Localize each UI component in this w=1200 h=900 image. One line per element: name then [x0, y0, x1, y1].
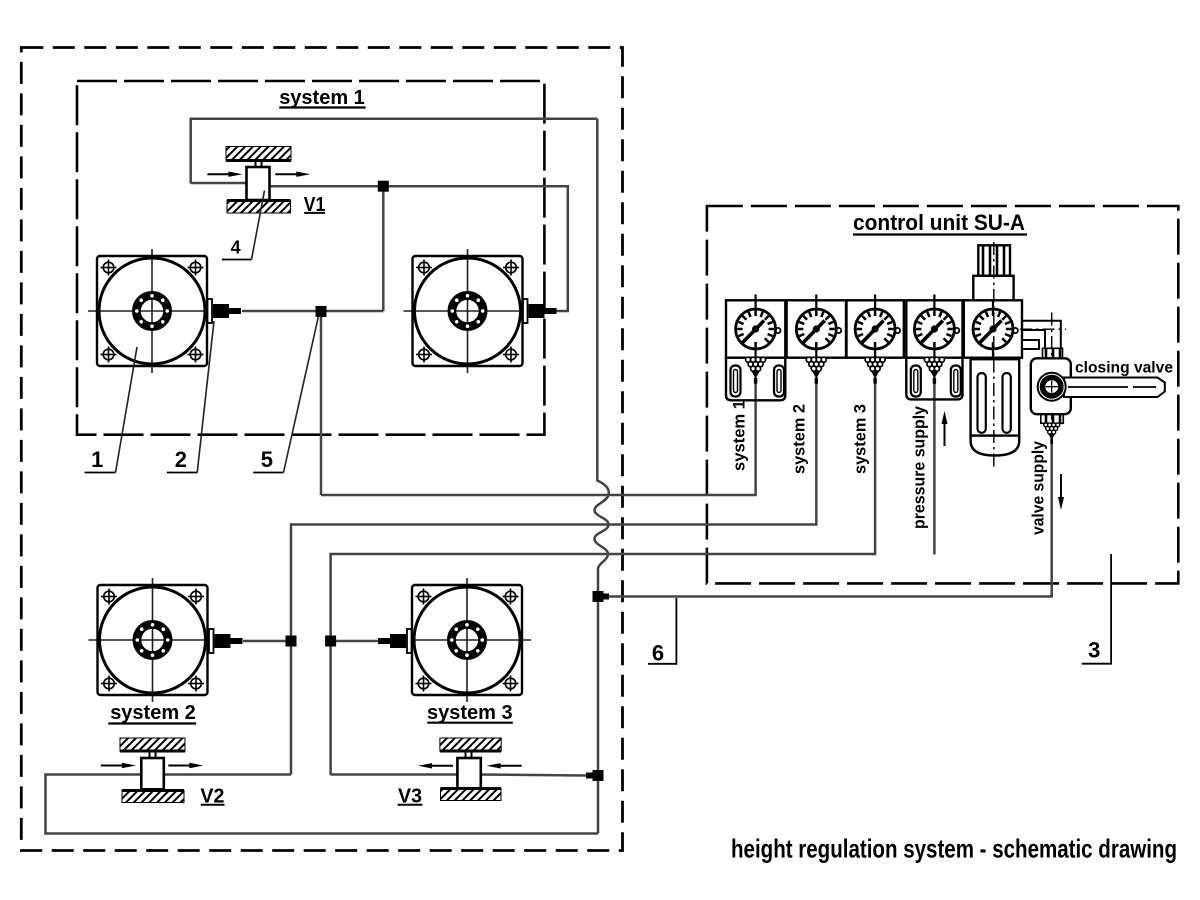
svg-text:valve supply: valve supply: [1029, 441, 1048, 535]
svg-text:4: 4: [231, 238, 241, 258]
svg-text:6: 6: [652, 641, 664, 666]
svg-text:control unit SU-A: control unit SU-A: [853, 210, 1025, 235]
svg-text:pressure supply: pressure supply: [910, 405, 929, 529]
svg-text:system 2: system 2: [110, 702, 196, 724]
svg-text:system 1: system 1: [730, 400, 749, 471]
svg-text:system 2: system 2: [790, 404, 809, 474]
svg-text:5: 5: [261, 447, 273, 472]
svg-text:height regulation system - sch: height regulation system - schematic dra…: [731, 834, 1177, 864]
svg-text:1: 1: [91, 447, 103, 472]
svg-text:system 1: system 1: [279, 87, 365, 109]
svg-text:system 3: system 3: [427, 702, 513, 724]
svg-text:system 3: system 3: [851, 404, 870, 474]
svg-text:2: 2: [175, 447, 187, 472]
svg-text:closing valve: closing valve: [1075, 360, 1173, 377]
svg-text:3: 3: [1088, 637, 1100, 662]
